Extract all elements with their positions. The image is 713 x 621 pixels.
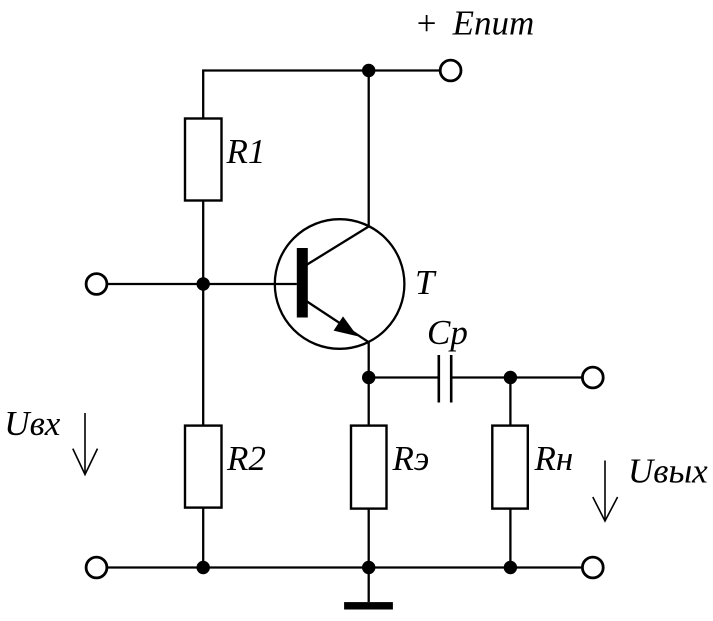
wire: collector vertical drop to transistor (368, 71, 370, 227)
wire: base node down to R2 top (202, 284, 204, 426)
capacitor Cp: left plate (437, 355, 440, 403)
junction: output node (504, 371, 517, 384)
wire: output node down to Rн top (509, 378, 511, 426)
terminal: output (open circle) (582, 367, 603, 388)
svg-text:+: + (415, 4, 439, 43)
terminal: bottom left (open circle) (86, 557, 107, 578)
svg-text:Cp: Cp (427, 313, 468, 352)
wire: capacitor right plate to output node (452, 376, 510, 378)
wire: bottom ground rail (108, 566, 582, 568)
wire: ground stub below rail (368, 568, 370, 603)
terminal: input (open circle) (86, 274, 107, 295)
junction: R2 at ground rail (197, 561, 210, 574)
resistor Rн (492, 426, 528, 509)
resistor Rэ (351, 426, 387, 509)
svg-text:T: T (415, 263, 437, 302)
arrow: input voltage direction (73, 413, 98, 475)
transistor T: base bar (297, 248, 308, 318)
ground (344, 602, 393, 609)
svg-text:Uвх: Uвх (4, 404, 60, 443)
wire: Rн bottom to ground rail (509, 509, 511, 568)
transistor T: body circle (275, 219, 405, 349)
transistor T: emitter lead (306, 301, 369, 343)
wire: emitter vertical to emitter node (368, 342, 370, 378)
resistor R1 (185, 119, 222, 201)
wire: output node to output terminal (510, 376, 581, 378)
svg-text:Rэ: Rэ (392, 439, 430, 478)
junction: Rн at ground rail (504, 561, 517, 574)
wire: emitter node down to Rэ top (368, 378, 370, 426)
svg-text:Eпит: Eпит (452, 4, 535, 43)
wire: collector junction to +Eпит terminal (369, 69, 440, 71)
svg-text:Rн: Rн (534, 439, 574, 478)
svg-text:R1: R1 (226, 132, 266, 171)
wire: emitter node to capacitor left plate (369, 376, 438, 378)
capacitor Cp: right plate (450, 355, 453, 403)
wire: R1 bottom to base node (202, 201, 204, 285)
resistor R2 (185, 426, 222, 508)
junction: collector node at top rail (362, 64, 375, 77)
wire: top supply rail, R1 corner to collector junction (203, 71, 369, 119)
wire: R2 bottom to ground rail (202, 508, 204, 568)
transistor T: emitter arrowhead (334, 316, 358, 336)
junction: base node (197, 277, 210, 290)
terminal: bottom right (open circle) (582, 557, 603, 578)
terminal: +Eпит (open circle) (440, 60, 461, 81)
junction: Rэ at ground rail (362, 561, 375, 574)
svg-text:Uвых: Uвых (628, 452, 708, 491)
transistor T: collector lead (306, 227, 369, 266)
arrow: output voltage direction (593, 461, 618, 522)
wire: Rэ bottom to ground rail (368, 509, 370, 568)
junction: emitter node (362, 371, 375, 384)
svg-text:R2: R2 (226, 439, 266, 478)
wire: input terminal to transistor base (107, 283, 296, 285)
